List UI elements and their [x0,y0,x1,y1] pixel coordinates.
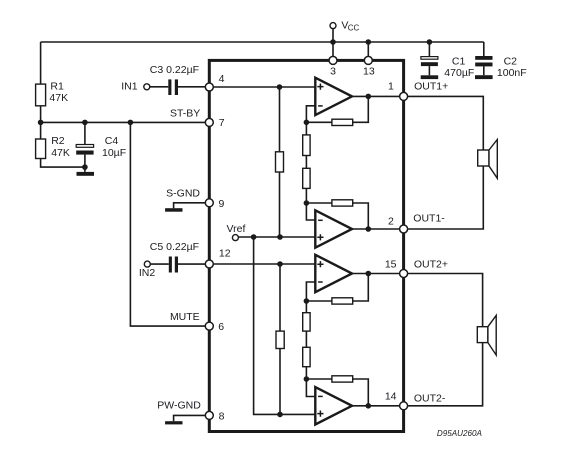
wire op-amp U2B output to pin 14 [352,405,404,407]
svg-text:OUT1-: OUT1- [413,213,445,225]
speaker LS2 [477,315,496,355]
wire speaker LS2 to pin 14 [404,343,483,406]
svg-text:OUT2-: OUT2- [414,392,446,404]
wire S-GND [174,203,209,208]
wire R1 bottom to ST-BY node [40,106,42,123]
wire pin 13 stub [367,42,369,60]
wire IN2 to C5 [150,263,169,265]
pin 6 [205,322,213,330]
wire C4 top lead [84,122,86,144]
wire op-amp U2A - stub [306,282,315,301]
resistor chain B lower [303,347,310,366]
pin 1 [400,92,408,100]
pin 9 [205,199,213,207]
op-amp U1A [315,78,352,115]
svg-text:OUT2+: OUT2+ [414,258,448,270]
svg-text:OUT1+: OUT1+ [414,80,448,92]
op-amp U2B [315,387,352,424]
wire op-amp U1A output to pin 1 [352,95,404,97]
svg-text:IN2: IN2 [139,267,156,279]
pin 15 [400,270,408,278]
node Vref line branch [251,234,257,240]
node R2 / C4 ground [82,164,88,170]
node ST-BY / MUTE branch [128,120,134,126]
resistor chain A lower [303,168,310,188]
wire input resistor upper leads [279,87,281,237]
node U2B feedback [304,376,310,382]
wire pin 4 to op-amp U1A + input [209,86,315,88]
svg-text:S-GND: S-GND [166,188,200,200]
wire op-amp U2B - stub [306,379,315,397]
node U1B feedback [304,200,310,206]
terminal IN2 [144,261,150,267]
node pin12 line / input resistor [277,261,283,267]
node U2B output [366,403,372,409]
node VCC rail / C1 [427,39,433,45]
svg-text:Vref: Vref [227,223,246,235]
svg-text:4: 4 [219,73,225,85]
wire VCC stub [332,29,334,61]
resistor feedback U1B [332,200,353,206]
wire R2 top lead [40,122,42,139]
wire C5 to pin 12 [178,263,209,265]
resistor input lower (internal) [276,331,284,348]
svg-text:C3 0.22µF: C3 0.22µF [150,64,199,76]
node Vref line / input resistor [277,234,283,240]
wire C2 top lead [483,42,485,56]
wire op-amp U1A - stub [306,106,315,123]
pin 2 [400,225,408,233]
svg-text:47K: 47K [49,92,68,104]
wire pin 15 to speaker LS2 [404,274,483,327]
ground C4 [77,172,95,176]
wire top VCC rail [41,41,484,43]
wire input resistor lower leads [279,264,281,414]
svg-text:R2: R2 [51,135,65,147]
ground PW-GND [165,421,182,424]
svg-text:R1: R1 [50,81,64,93]
svg-text:7: 7 [219,117,225,129]
node VCC rail / pin3 [330,39,336,45]
svg-text:MUTE: MUTE [170,311,200,323]
svg-text:D95AU260A: D95AU260A [437,429,482,438]
resistor feedback U2A [332,298,353,304]
speaker LS1 [478,140,498,179]
svg-text:8: 8 [219,410,225,422]
terminal IN1 [144,84,150,90]
svg-text:12: 12 [219,248,231,260]
wire speaker LS1 to pin 2 [404,166,484,229]
resistor chain B upper [303,313,310,331]
svg-text:CC: CC [348,24,360,33]
wire MUTE branch [130,122,209,326]
svg-text:ST-BY: ST-BY [170,108,200,120]
svg-text:15: 15 [385,258,397,270]
pin 14 [400,402,408,410]
svg-text:C4: C4 [105,135,119,147]
wire Vref vertical to op-amp U2B + line [254,237,316,414]
node ST-BY / R1 R2 [38,120,44,126]
wire op-amp U2A feedback [306,274,368,302]
resistor R2 [36,139,46,159]
wire op-amp U2A output to pin 15 [352,273,404,275]
ground S-GND [165,208,182,212]
resistor feedback U1A [332,119,353,125]
wire op-amp U2B feedback [306,379,368,406]
wire op-amp U1B output to pin 2 [352,228,404,230]
op-amp U2A [315,255,352,292]
capacitor C5 [169,257,178,273]
wire ST-BY line to pin 7 [41,121,209,123]
pin 13 [364,56,372,64]
IC body TDA7266 [209,60,403,431]
node U2A output [366,271,372,277]
wire C1 top lead [428,42,430,56]
resistor input upper (internal) [276,152,284,172]
svg-text:3: 3 [330,65,336,77]
pin 3 [329,56,337,64]
svg-text:13: 13 [363,66,375,78]
pin 4 [205,83,213,91]
capacitor C3 [168,79,178,95]
ground C2 [475,75,493,79]
node pin4 line / input resistor [277,84,283,90]
resistor chain A upper [303,135,310,156]
wire resistor chain A links [305,122,307,203]
wire C1 bottom lead [428,66,430,75]
svg-text:100nF: 100nF [497,67,527,79]
node VCC rail / pin13 [366,39,372,45]
wire IN1 to C3 [150,86,169,88]
svg-text:PW-GND: PW-GND [157,399,201,411]
capacitor C1 [421,57,438,67]
svg-text:2: 2 [388,215,394,227]
node U1A feedback [304,120,310,126]
capacitor C4 [76,145,93,155]
svg-text:6: 6 [218,321,224,333]
wire C3 to pin 4 [178,86,209,88]
wire resistor chain B links [305,301,307,379]
svg-text:C5 0.22µF: C5 0.22µF [150,241,199,253]
wire pin 1 to speaker LS1 [404,96,484,150]
ground C1 [421,75,439,79]
node op U2B + line / input resistor [277,412,283,418]
node U1B output [366,226,372,232]
node U2A feedback [304,298,310,304]
wire PW-GND [174,415,209,421]
svg-text:C1: C1 [452,56,466,68]
svg-text:47K: 47K [51,147,70,159]
terminal VCC [330,23,336,29]
pin 8 [205,411,213,419]
wire Vref line to op-amp U1B + input [239,236,316,238]
svg-text:1: 1 [388,81,394,93]
node U1A output [366,94,372,100]
wire R2 bottom lead [41,159,85,168]
pin 7 [205,118,213,126]
resistor feedback U2B [332,376,353,382]
svg-text:9: 9 [219,198,225,210]
wire op-amp U1B feedback [306,203,368,229]
wire left rail to R1 [40,42,42,85]
wire pin 12 to op-amp U2A + input [209,263,315,265]
wire C4 bottom lead to ground [84,155,86,172]
svg-text:10µF: 10µF [102,147,126,159]
svg-text:IN1: IN1 [121,81,138,93]
node ST-BY / C4 [82,120,88,126]
wire op-amp U1A feedback [306,96,368,122]
svg-text:C2: C2 [504,56,518,68]
svg-text:470µF: 470µF [444,67,474,79]
wire op-amp U1B - stub [306,203,315,220]
terminal Vref [232,235,238,241]
op-amp U1B [315,210,352,247]
capacitor C2 [475,56,492,66]
resistor R1 [36,84,46,106]
wire C2 bottom lead [483,66,485,75]
pin 12 [205,260,213,268]
svg-text:14: 14 [385,391,397,403]
